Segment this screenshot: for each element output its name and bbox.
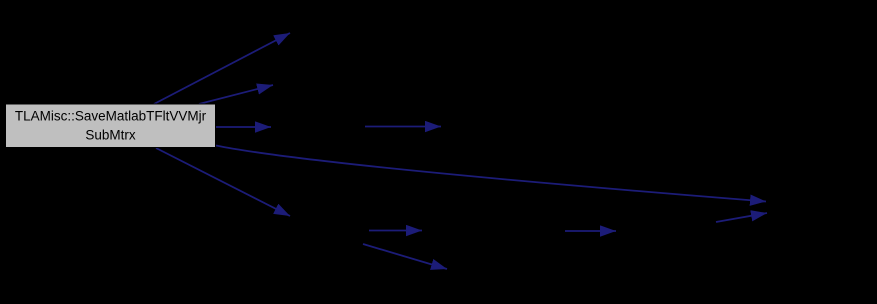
edge node5 to node6 xyxy=(369,230,422,232)
edge to lower node 5 xyxy=(156,148,290,216)
edge node7 to far-right node xyxy=(716,213,767,222)
long edge to far-right node xyxy=(216,146,766,202)
edge to upper node 1 xyxy=(154,33,290,104)
edge node5 to lower node 8 xyxy=(363,244,447,269)
edge to upper node 2 xyxy=(199,85,273,104)
edge node6 to node7 xyxy=(565,230,616,232)
edge to middle node 3 xyxy=(216,126,271,128)
svg-text:TLAMisc::SaveMatlabTFltVVMjr: TLAMisc::SaveMatlabTFltVVMjr xyxy=(15,109,207,124)
svg-text:SubMtrx: SubMtrx xyxy=(85,128,136,143)
edge node3 to node4 xyxy=(365,126,441,128)
node box TLAMisc::SaveMatlabTFltVVMjrSubMtrx xyxy=(6,104,216,148)
